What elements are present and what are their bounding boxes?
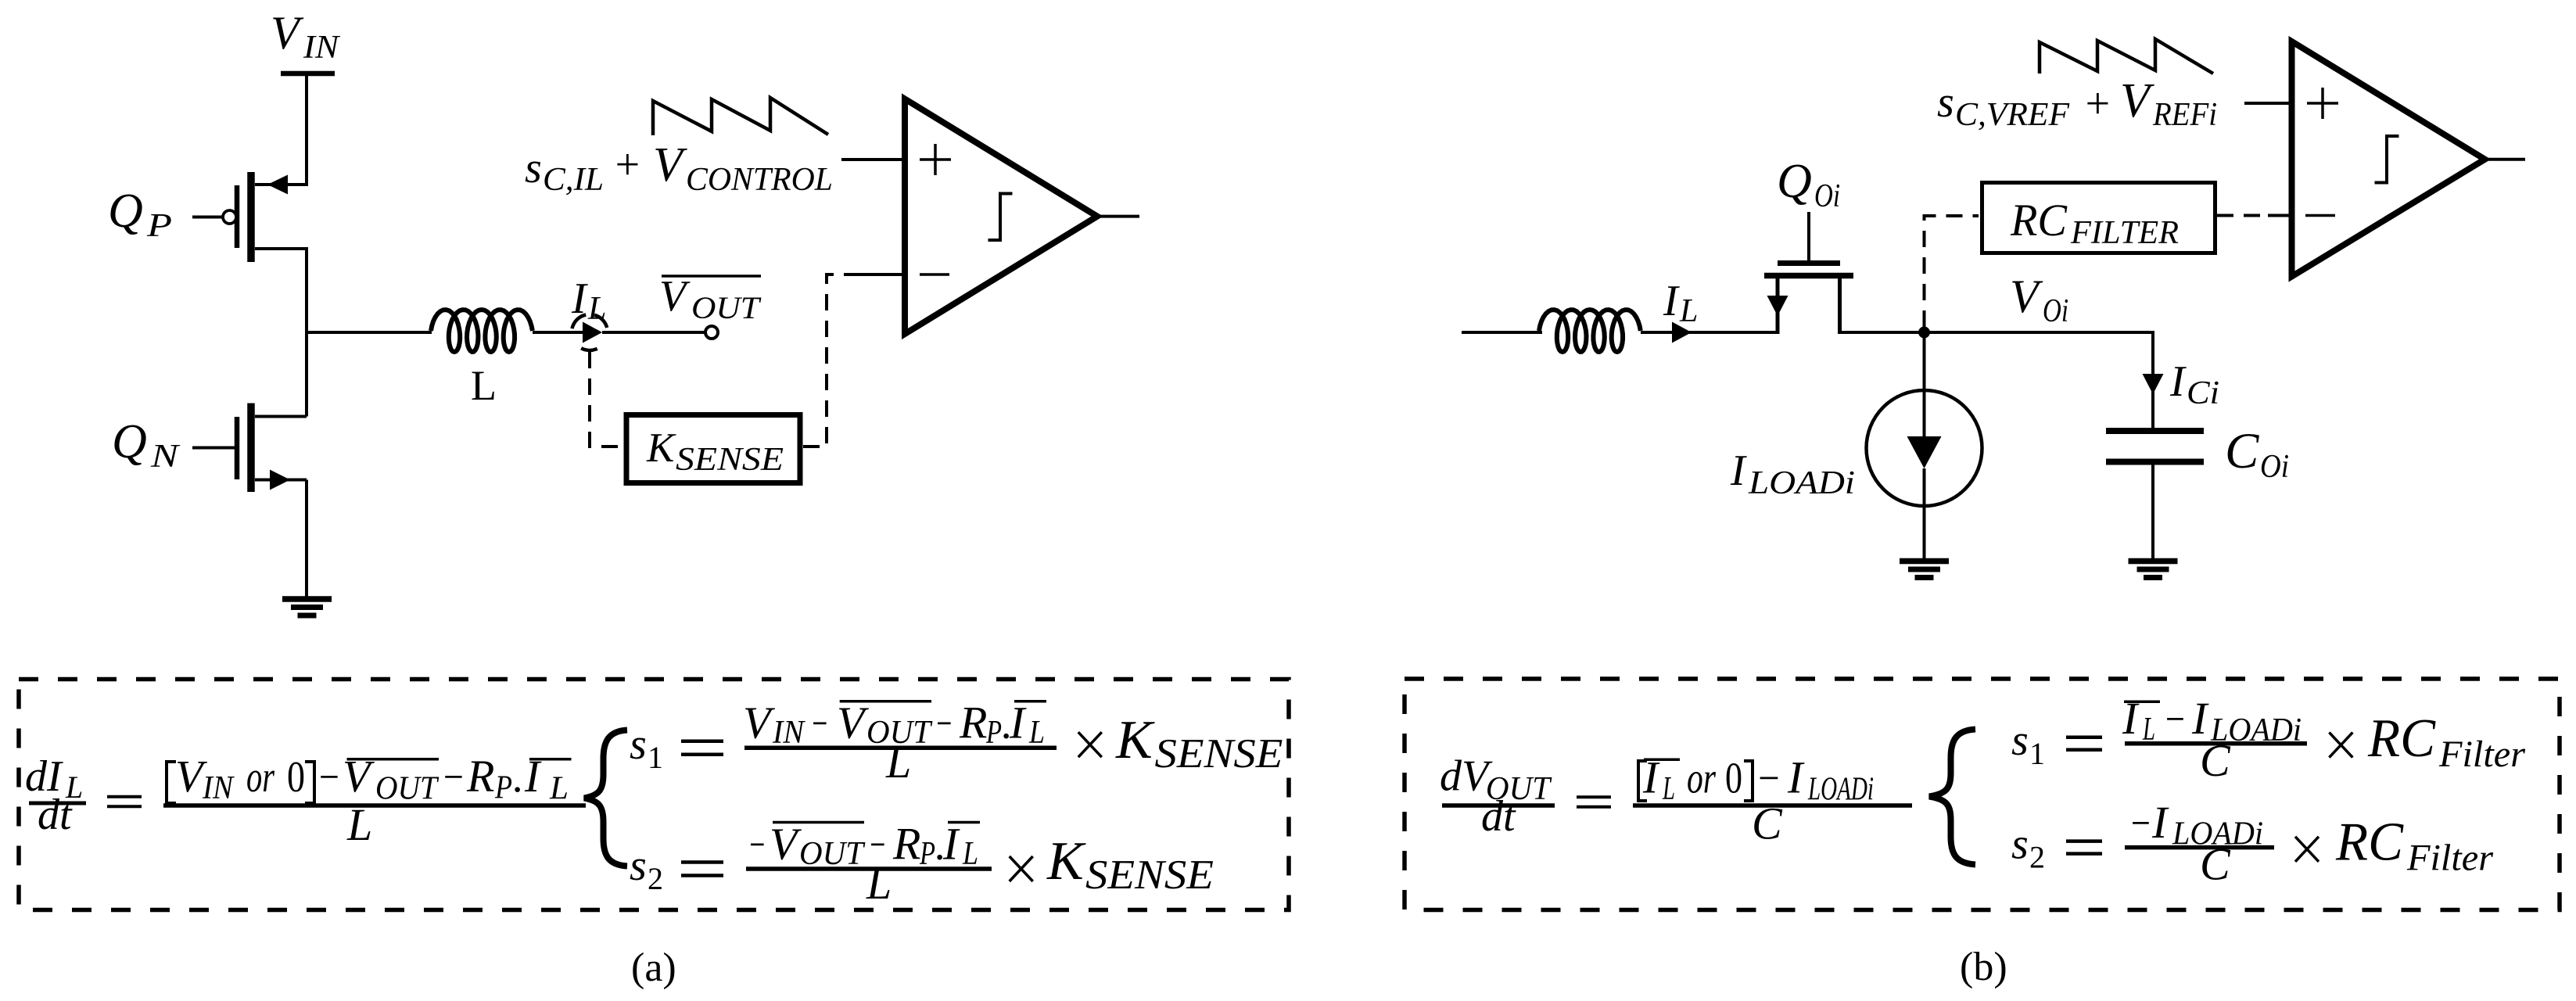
svg-text:LOADi: LOADi [1748, 465, 1855, 501]
svg-text:V: V [659, 272, 691, 321]
power rail VIN [281, 71, 335, 77]
transistor QP gate bubble [223, 210, 236, 224]
svg-text:L: L [1662, 771, 1675, 807]
svg-text:L: L [866, 858, 892, 909]
svg-text:R: R [959, 698, 987, 748]
svg-text:Ci: Ci [2187, 375, 2219, 411]
svg-text:SENSE: SENSE [1085, 852, 1214, 898]
equation B equals main [1577, 795, 1611, 798]
equation A s2 num VOUT overline [773, 821, 864, 824]
svg-text:dt: dt [1481, 792, 1516, 841]
svg-text:−: − [748, 820, 766, 869]
svg-text:OUT: OUT [691, 290, 762, 325]
svg-text:V: V [653, 138, 687, 192]
op-amp comparator A triangle [905, 99, 1097, 335]
equation A s1 fraction bar [744, 745, 1057, 750]
wire capacitor to ground [2151, 465, 2154, 560]
svg-text:L: L [346, 799, 372, 850]
brace A [584, 730, 627, 866]
wire input to inductor B [1462, 331, 1542, 334]
equation A s2 equals [681, 860, 723, 864]
svg-text:s: s [525, 144, 542, 192]
svg-text:0: 0 [287, 753, 305, 802]
svg-text:C: C [2200, 839, 2231, 890]
equation A bracket left [167, 762, 176, 803]
equation box A dashed border [19, 680, 1289, 910]
svg-text:C,VREF: C,VREF [1955, 97, 2069, 133]
svg-text:SENSE: SENSE [676, 442, 784, 478]
op-amp B minus sign [2305, 214, 2335, 217]
equation B s1 times [2329, 733, 2352, 758]
ground A [282, 596, 332, 602]
svg-text:C: C [2225, 423, 2259, 479]
svg-text:P: P [494, 770, 512, 806]
svg-text:K: K [1046, 831, 1086, 892]
svg-text:I: I [942, 818, 960, 869]
equation A equals main [107, 795, 142, 798]
svg-text:P: P [919, 836, 935, 872]
op-amp B step symbol [2375, 136, 2399, 183]
wire inductor B to QOi [1641, 331, 1778, 334]
svg-text:L: L [1028, 715, 1045, 751]
svg-text:Filter: Filter [2406, 838, 2493, 879]
svg-text:L: L [587, 291, 606, 327]
svg-text:or: or [1687, 755, 1716, 803]
svg-text:−: − [935, 700, 953, 748]
current sensor IL dashed circle [594, 315, 607, 328]
junction dot VOi [1919, 327, 1930, 338]
svg-text:1: 1 [2029, 736, 2045, 771]
equation box B dashed border [1405, 679, 2560, 910]
equation A numerator VOUT overline [347, 758, 439, 761]
wire comparator B plus lead [2244, 102, 2291, 105]
transistor QP drain lead [255, 247, 307, 250]
wire QN source to ground [305, 480, 308, 597]
dashed wire sensor to KSENSE [590, 352, 623, 447]
wire QOi to junction to cap [1840, 331, 2154, 334]
wire QP drain to node [305, 247, 308, 334]
svg-text:FILTER: FILTER [2070, 215, 2179, 251]
svg-text:REFi: REFi [2152, 97, 2217, 133]
svg-text:IN: IN [303, 30, 340, 66]
transistor QP source lead [255, 183, 307, 186]
wire arrow ICi [2143, 374, 2164, 394]
equation A numerator IL overline [529, 758, 572, 761]
op-amp A step symbol [988, 194, 1013, 241]
svg-text:Oi: Oi [2043, 293, 2068, 329]
capacitor COi bottom plate [2106, 459, 2204, 465]
svg-text:L: L [1679, 293, 1698, 329]
wire inductor to IL sensor [533, 331, 585, 334]
equation A s2 times [1010, 856, 1033, 881]
svg-text:−: − [441, 753, 465, 802]
transistor QN source arrow [270, 470, 290, 490]
svg-text:V: V [2120, 74, 2154, 127]
transistor QN gate bar [235, 417, 240, 479]
transistor QN drain lead [255, 415, 307, 418]
op-amp comparator B triangle [2292, 41, 2485, 277]
inductor L [431, 310, 533, 352]
equation B s1 equals [2066, 736, 2102, 740]
svg-text:K: K [646, 425, 676, 471]
block RCfilter box [1982, 183, 2215, 253]
svg-text:I: I [2151, 797, 2169, 848]
equation B s2 fraction bar [2125, 845, 2274, 850]
svg-text:−: − [317, 753, 341, 802]
transistor QOi source arrow [1767, 296, 1788, 316]
svg-text:(b): (b) [1960, 945, 2007, 989]
svg-text:R: R [466, 751, 494, 802]
transistor QN gate lead [192, 447, 235, 450]
svg-text:+: + [612, 141, 642, 189]
svg-text:RC: RC [2010, 195, 2068, 246]
transistor QP channel bar [247, 172, 255, 262]
wire junction to current source [1923, 332, 1926, 437]
equation A s1 equals [681, 739, 723, 743]
sawtooth waveform B [2040, 39, 2213, 74]
op-amp B plus sign [2307, 102, 2338, 105]
transistor QOi gate bar [1778, 260, 1840, 266]
ground B1 [1900, 558, 1949, 565]
svg-text:−: − [2163, 695, 2187, 744]
node VOUT label overline [662, 274, 761, 278]
svg-text:C,IL: C,IL [543, 162, 604, 198]
svg-text:SENSE: SENSE [1155, 731, 1283, 777]
wire node to inductor L [307, 331, 432, 334]
svg-text:or: or [246, 753, 274, 802]
svg-text:Filter: Filter [2438, 734, 2525, 775]
wire node to QN drain [305, 332, 308, 417]
current source ILOADi arrow [1907, 436, 1942, 468]
capacitor COi top plate [2106, 428, 2204, 434]
svg-text:Oi: Oi [2260, 449, 2289, 485]
svg-text:I: I [571, 274, 588, 323]
svg-text:I: I [1730, 447, 1747, 495]
transistor QOi drain lead [1838, 276, 1842, 335]
dashed wire VOi to RCfilter [1925, 216, 1979, 327]
svg-text:L: L [471, 362, 497, 409]
svg-text:s: s [2011, 716, 2029, 765]
svg-text:.: . [513, 753, 524, 802]
wire VIN to QP source [305, 74, 308, 186]
transistor QN channel bar [247, 404, 255, 493]
terminal VOUT circle [705, 326, 718, 339]
svg-text:IN: IN [202, 770, 235, 806]
svg-text:I: I [1642, 752, 1660, 803]
equation B main fraction bar [1633, 803, 1912, 808]
svg-text:s: s [2011, 820, 2029, 869]
svg-text:+: + [2083, 80, 2112, 128]
svg-text:P: P [985, 715, 1002, 751]
svg-text:Oi: Oi [1814, 178, 1840, 214]
wire comparator A output [1097, 215, 1139, 218]
svg-text:L: L [549, 771, 569, 807]
equation B num IL overline [1644, 758, 1680, 761]
dashed wire KSENSE to comparator minus [803, 274, 854, 447]
svg-text:OUT: OUT [799, 836, 866, 872]
svg-text:1: 1 [648, 740, 663, 775]
svg-text:IN: IN [772, 715, 805, 751]
wire arrow IL B [1672, 322, 1692, 343]
svg-text:L: L [962, 836, 978, 872]
svg-text:I: I [2169, 357, 2187, 406]
svg-text:dt: dt [38, 791, 73, 839]
svg-text:2: 2 [648, 861, 663, 896]
transistor QOi source lead [1776, 276, 1780, 335]
svg-text:LOADi: LOADi [1807, 772, 1874, 808]
svg-text:N: N [150, 439, 181, 475]
sawtooth waveform A [653, 98, 828, 135]
svg-text:V: V [2010, 271, 2043, 322]
svg-text:P: P [146, 208, 172, 244]
svg-text:I: I [2122, 693, 2140, 744]
equation B s2 equals [2066, 839, 2102, 843]
svg-text:C: C [2200, 735, 2231, 786]
transistor QP gate bar [235, 185, 240, 248]
svg-text:2: 2 [2029, 840, 2045, 875]
svg-text:−: − [810, 700, 829, 748]
svg-text:−: − [2129, 799, 2152, 848]
equation B s1 num IL overline [2124, 701, 2160, 704]
svg-text:(a): (a) [631, 945, 676, 990]
wire comparator A minus lead [852, 273, 905, 276]
svg-text:Q: Q [112, 415, 147, 468]
equation A s2 fraction bar [746, 866, 992, 871]
svg-text:Q: Q [1777, 155, 1812, 208]
transistor QP gate lead [192, 216, 223, 219]
equation B s2 times [2295, 837, 2319, 862]
svg-text:K: K [1115, 710, 1155, 770]
wire current source to ground [1923, 468, 1926, 560]
transistor QN source lead [255, 479, 307, 482]
transistor QP source arrow [267, 175, 288, 195]
op-amp A minus sign [920, 273, 949, 276]
svg-text:V: V [271, 7, 304, 59]
equation B bracket left [1638, 761, 1647, 801]
current source ILOADi circle [1867, 390, 1982, 506]
equation A s1 num IL overline [1014, 700, 1046, 703]
svg-text:s: s [630, 720, 647, 769]
wire sensor to VOUT terminal [602, 331, 705, 334]
transistor QOi channel bar [1764, 273, 1853, 279]
svg-text:CONTROL: CONTROL [686, 162, 833, 198]
svg-text:I: I [524, 751, 542, 802]
svg-text:C: C [1752, 798, 1783, 849]
equation A main fraction bar [163, 803, 586, 808]
equation A s1 times [1078, 732, 1102, 757]
svg-text:L: L [885, 737, 911, 788]
equation A bracket right [305, 762, 314, 803]
block KSENSE box [626, 415, 800, 483]
equation A s1 num VOUT overline [840, 700, 931, 703]
wire comparator A plus lead [841, 158, 905, 161]
svg-text:−: − [1756, 755, 1781, 803]
equation A s2 num IL overline [948, 821, 980, 824]
transistor QOi gate lead [1807, 212, 1810, 260]
equation B s1 fraction bar [2125, 741, 2307, 746]
current sensor IL arrow [583, 322, 602, 343]
wire comparator B output [2485, 158, 2526, 161]
svg-text:RC: RC [2367, 709, 2436, 769]
inductor B [1539, 310, 1641, 352]
wire VOi to capacitor [2151, 332, 2154, 431]
svg-text:OUT: OUT [375, 771, 439, 807]
svg-text:RC: RC [2335, 813, 2404, 873]
equation B bracket right [1744, 761, 1753, 801]
op-amp A plus sign [920, 158, 951, 161]
wire comparator B minus lead [2268, 214, 2291, 217]
svg-text:I: I [1009, 698, 1027, 748]
svg-text:Q: Q [108, 185, 143, 238]
ground B2 [2129, 558, 2178, 565]
dashed wire RCfilter to comparator minus [2217, 214, 2269, 217]
svg-text:s: s [630, 841, 647, 890]
svg-text:0: 0 [1725, 755, 1742, 803]
svg-text:s: s [1937, 78, 1954, 127]
svg-text:I: I [1787, 752, 1805, 803]
svg-text:I: I [1663, 277, 1680, 325]
svg-text:R: R [892, 818, 920, 869]
brace B [1929, 730, 1975, 865]
